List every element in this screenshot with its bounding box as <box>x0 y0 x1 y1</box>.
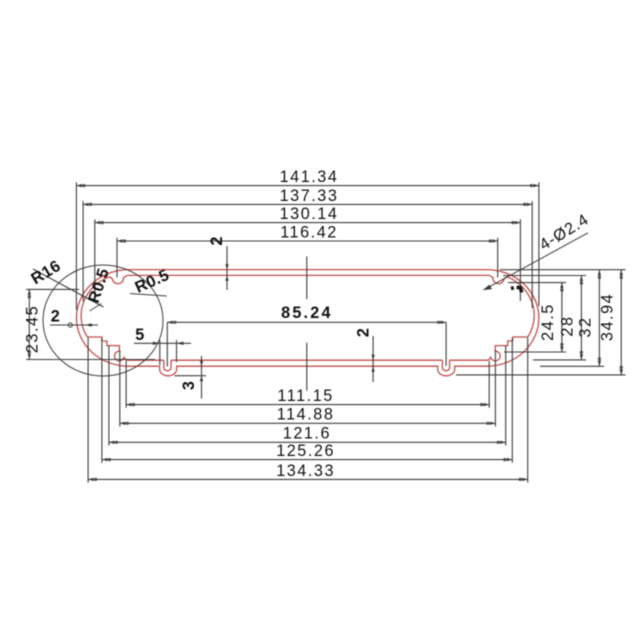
extension line right for 5 <box>176 340 178 362</box>
dimension 125.26 <box>102 442 512 461</box>
dimension 2 bottom wall thickness <box>355 328 375 382</box>
svg-text:2: 2 <box>355 328 373 337</box>
svg-text:2: 2 <box>51 308 60 326</box>
extension line left for 121.6 <box>108 346 110 446</box>
ink mark near top-right screw channel <box>511 287 522 292</box>
svg-text:137.33: 137.33 <box>280 187 339 205</box>
extension line right for 137.33 <box>531 201 533 308</box>
extension line top for 23.45 <box>26 288 79 290</box>
extension line bottom for 32 <box>540 365 604 367</box>
dimension 23.45 <box>24 289 42 359</box>
leader line for R0.5 first <box>90 304 102 312</box>
label R0.5 vertical <box>85 266 113 305</box>
extension line right for 134.33 <box>527 338 529 483</box>
svg-text:134.33: 134.33 <box>276 462 335 480</box>
right bump screw slot <box>442 360 449 371</box>
dimension 3 boss depth <box>180 356 203 399</box>
label 4-diameter-2.4 <box>536 210 592 254</box>
svg-text:24.5: 24.5 <box>539 303 557 341</box>
extension line right for 130.14 <box>519 219 521 301</box>
extension line top for 24.5 <box>508 282 566 284</box>
profile outer shell (red) <box>76 270 538 376</box>
top-right screw channel recess <box>489 275 508 283</box>
dimension 85.24 between bottom bosses <box>167 304 446 324</box>
extension line right for 116.42 <box>497 238 499 278</box>
vertical centerline lower segment <box>306 343 308 391</box>
profile inner bottom wall line right segment <box>450 359 489 361</box>
extension line right for 121.6 <box>505 346 507 446</box>
extension line left for 125.26 <box>101 338 103 463</box>
svg-text:111.15: 111.15 <box>277 387 333 405</box>
svg-text:130.14: 130.14 <box>280 205 339 223</box>
svg-text:2: 2 <box>208 236 226 245</box>
extension line left for 5 <box>159 340 161 365</box>
dimension 141.34 overall width <box>76 168 539 187</box>
profile inner bottom wall line left segment <box>126 359 164 361</box>
dimension 114.88 <box>120 406 496 425</box>
extension line left for 85.24 <box>166 322 168 366</box>
svg-text:85.24: 85.24 <box>281 304 333 322</box>
dimension 32 <box>577 270 602 366</box>
top-left screw channel R0.5 recess <box>108 275 127 283</box>
bottom-right ledge and screw channel <box>489 337 528 361</box>
svg-text:23.45: 23.45 <box>24 305 42 353</box>
bottom-left ledge and screw channel <box>87 337 126 361</box>
dimension 24.5 <box>539 283 564 352</box>
extension line right for 125.26 <box>511 338 513 463</box>
dimension 121.6 <box>109 425 506 444</box>
extension line right for 111.15 <box>488 361 490 408</box>
dimension 130.14 <box>95 205 521 224</box>
extension line bottom for 24.5 <box>504 351 566 353</box>
svg-text:5: 5 <box>135 326 144 344</box>
extension line bottom for 34.94 <box>456 374 626 376</box>
dimension 111.15 <box>126 387 489 406</box>
dimension 137.33 <box>83 187 532 206</box>
extension line right for 114.88 <box>494 350 496 427</box>
extension line left for 141.34 <box>75 182 77 310</box>
profile inner bottom wall line middle segment <box>171 359 442 361</box>
extension line bottom for 28 <box>533 359 586 361</box>
label R0.5 slanted <box>132 266 172 297</box>
extension line bottom for 3 <box>175 375 207 377</box>
svg-text:121.6: 121.6 <box>283 425 331 443</box>
extension line left for 134.33 <box>87 338 89 483</box>
extension line bottom for 23.45 <box>26 359 155 361</box>
dimension 2 left wall thickness <box>50 308 98 327</box>
extension line top for 32 and 34.94 <box>500 269 626 271</box>
extension line left for 116.42 <box>116 238 118 278</box>
extension line right for 85.24 <box>445 322 447 366</box>
svg-text:34.94: 34.94 <box>598 293 616 341</box>
dimension 2 top wall thickness <box>208 236 229 290</box>
profile inner top wall line <box>127 274 489 276</box>
svg-text:141.34: 141.34 <box>280 168 339 186</box>
svg-text:28: 28 <box>559 315 577 336</box>
leader line for 4-diam-2.4 <box>483 233 589 290</box>
label R16 <box>28 257 64 288</box>
leader line for R16 <box>33 269 104 307</box>
vertical centerline upper segment <box>306 256 308 299</box>
svg-text:3: 3 <box>180 381 198 390</box>
left bump screw slot <box>164 360 171 371</box>
dimension 134.33 <box>88 462 528 481</box>
inner wall arc left end <box>81 277 108 337</box>
inner wall arc right end <box>508 277 534 337</box>
dimension 34.94 overall height <box>598 270 623 375</box>
dimension 116.42 screw centers <box>117 223 498 242</box>
svg-text:125.26: 125.26 <box>276 442 335 460</box>
svg-text:32: 32 <box>577 316 595 337</box>
dimension 28 <box>559 276 584 360</box>
svg-text:116.42: 116.42 <box>280 223 338 241</box>
extension line left for 130.14 <box>94 219 96 297</box>
detail view circle around left end <box>43 265 163 376</box>
svg-text:114.88: 114.88 <box>277 406 335 424</box>
extension line left for 111.15 <box>125 361 127 408</box>
extension line left for 137.33 <box>82 201 84 301</box>
extension line top for 28 <box>503 275 586 277</box>
extension line left for 114.88 <box>119 350 121 427</box>
dimension 5 boss width <box>134 326 191 345</box>
extension line right for 141.34 <box>538 182 540 306</box>
leader line for R0.5 second <box>130 294 167 297</box>
